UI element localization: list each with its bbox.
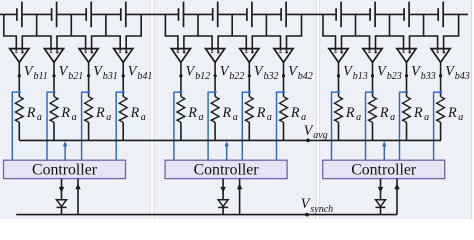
node V_b11 junction dot [18,74,21,77]
svg-text:b41: b41 [137,71,152,82]
diode D2 [218,200,228,208]
op-amp U8 minus input mark [279,51,281,53]
wire: blue sense line from node V_b42 to controller 2 [277,92,284,160]
op-amp U3 plus input mark [90,51,93,54]
label Ra of resistor R3 [95,105,111,123]
node V_b13 junction dot [337,74,340,77]
wire: blue Vavg feedback line with up arrow into controller 3 [382,141,386,160]
label V_b23 [377,63,402,82]
wire: blue sense line from node V_b21 to controller 1 [47,92,54,160]
junction dot on sense line at node V_b32 [248,91,251,94]
wire: tap from bus to op-amp U4 right input [126,14,141,50]
node V_b21 junction dot [52,74,55,77]
node V_b31 junction dot [87,74,90,77]
controller 1 box [4,160,126,178]
label Ra of resistor R4 [130,105,146,123]
wire: resistor R4 bottom to Vavg bus [122,122,124,140]
label Vavg [304,123,328,141]
op-amp U2 minus input mark [50,51,52,53]
svg-text:a: a [106,112,111,123]
op-amp U11 (buffer) [397,49,416,63]
op-amp U1 minus input mark [15,51,17,53]
svg-text:R: R [290,105,300,121]
op-amp U1 plus input mark [21,51,24,54]
svg-text:b32: b32 [264,71,279,82]
label Ra of resistor R7 [256,105,272,123]
op-amp U4 minus input mark [119,51,121,53]
node: cell junction tap between B5 and B6 [197,14,199,36]
op-amp U10 plus input mark [374,51,377,54]
svg-text:a: a [72,112,77,123]
svg-text:a: a [141,112,146,123]
label V_b13 [343,63,368,82]
label Ra of resistor R8 [290,105,306,123]
wire: battery string bus segment y=14.4 [218,13,247,15]
battery cell B6 [213,2,218,28]
svg-text:a: a [37,112,42,123]
resistor R4 value Ra [119,97,127,123]
node Vsynch junction dot [305,213,309,217]
node V_b22 junction dot [214,74,217,77]
group separator between module 1 and module 2 [150,0,154,219]
op-amp U5 minus input mark [177,51,179,53]
wire: tap level to op-amp U5 right input and U6 left input [184,36,212,51]
op-amp U8 plus input mark [285,51,288,54]
svg-text:a: a [356,112,361,123]
battery cell B2 [52,2,57,28]
op-amp U4 plus input mark [125,51,128,54]
op-amp U10 (buffer) [363,49,382,63]
wire: blue sense line from node V_b43 to controller 3 [434,92,441,160]
wire: battery string bus segment y=14.4 [286,13,336,15]
svg-text:b22: b22 [229,71,244,82]
wire: controller 3 output to diode D3 with down arrow [378,179,383,200]
wire: resistor R8 bottom to Vavg bus [283,122,285,140]
wire: blue sense line from node V_b32 to controller 2 [242,92,249,160]
op-amp U5 plus input mark [183,51,186,54]
node Vavg junction dot [306,139,310,143]
battery cell B4 [121,2,126,28]
svg-text:b11: b11 [34,71,48,82]
junction dot on sense line at node V_b33 [405,91,408,94]
op-amp U6 (buffer) [206,49,225,63]
controller 3 box [323,160,445,178]
label Ra of resistor R9 [345,105,361,123]
svg-text:b33: b33 [421,71,436,82]
svg-text:R: R [26,105,36,121]
svg-text:b31: b31 [103,71,118,82]
wire: battery string bus segment y=14.4 [57,13,87,15]
junction dot on sense line at node V_b43 [439,91,442,94]
op-amp U6 plus input mark [217,51,220,54]
label V_b42 [288,63,313,82]
wire: blue sense line from node V_b12 to controller 2 [174,92,181,160]
resistor R12 value Ra [437,97,445,123]
label Ra of resistor R1 [26,105,42,123]
wire: resistor R10 bottom to Vavg bus [372,122,374,140]
right edge separator [472,0,474,219]
resistor R2 value Ra [50,97,58,123]
battery cell B9 [336,2,341,28]
svg-text:a: a [233,112,238,123]
svg-text:a: a [424,112,429,123]
resistor R10 value Ra [369,97,377,123]
op-amp U12 (buffer) [431,49,450,63]
wire: Vsynch bus to controller 2 input with up arrow [237,179,242,215]
resistor R8 value Ra [280,97,288,123]
junction dot on sense line at node V_b11 [18,91,21,94]
label Ra of resistor R10 [379,105,395,123]
wire: op-amp U8 output to node V_b42 and resistor R8 [283,62,285,96]
wire: controller 1 output to diode D1 with down arrow [59,179,64,200]
wire: battery string bus segment y=14.4 [375,13,404,15]
wire: resistor R5 bottom to Vavg bus [180,122,182,140]
wire: op-amp U6 output to node V_b22 and resistor R6 [214,62,216,96]
svg-text:R: R [256,105,266,121]
label Ra of resistor R2 [60,105,76,123]
op-amp U4 (buffer) [114,49,133,63]
wire: resistor R6 bottom to Vavg bus [214,122,216,140]
op-amp U7 minus input mark [245,51,247,53]
wire: tap level to op-amp U10 right input and U11 left input [376,36,404,51]
wire: blue Vavg feedback line with up arrow into controller 1 [63,141,67,160]
svg-text:R: R [95,105,105,121]
svg-text:b12: b12 [195,71,210,82]
op-amp U3 minus input mark [84,51,86,53]
group separator between module 2 and module 3 [316,0,319,219]
junction dot on sense line at node V_b21 [53,91,56,94]
node: cell junction tap between B9 and B10 [355,14,357,36]
wire: battery string bus segment y=14.4 [184,13,213,15]
op-amp U8 (buffer) [274,49,293,63]
svg-text:R: R [379,105,389,121]
op-amp U2 plus input mark [56,51,59,54]
junction dot on sense line at node V_b22 [214,91,217,94]
wire: blue sense line from node V_b33 to controller 3 [400,92,407,160]
wire: battery string bus segment y=14.4 [91,13,121,15]
op-amp U9 plus input mark [340,51,343,54]
wire: op-amp U12 output to node V_b43 and resistor R12 [440,62,442,96]
label V_b41 [128,63,153,82]
op-amp U2 (buffer) [44,49,63,63]
node V_b33 junction dot [405,74,408,77]
svg-text:R: R [447,105,457,121]
wire: battery string bus segment y=14.4 [443,13,468,15]
controller 2 box [165,160,287,178]
label Vsynch [301,196,333,215]
op-amp U5 (buffer) [171,49,190,63]
wire: resistor R2 bottom to Vavg bus [53,122,55,140]
resistor R1 value Ra [15,97,23,123]
svg-text:R: R [130,105,140,121]
wire: tap from bus to op-amp U5 left input [165,14,178,50]
wire: op-amp U7 output to node V_b32 and resistor R7 [248,62,250,96]
wire: resistor R3 bottom to Vavg bus [88,122,90,140]
label V_b11 [24,63,48,82]
wire: battery string bus segment y=14.4 [252,13,281,15]
battery cell B12 [438,2,443,28]
battery cell B1 [17,2,22,28]
wire: op-amp U3 output to node V_b31 and resistor R3 [88,62,90,96]
label V_b32 [254,63,279,82]
wire: controller 2 output to diode D2 with down arrow [220,179,225,200]
svg-text:Controller: Controller [351,162,417,179]
resistor R11 value Ra [403,97,411,123]
wire: op-amp U2 output to node V_b21 and resistor R2 [53,62,55,96]
svg-text:b23: b23 [387,71,402,82]
node: cell junction tap between B7 and B8 [265,14,267,36]
wire: battery string bus segment y=14.4 [126,13,179,15]
node V_b32 junction dot [248,74,251,77]
wire: resistor R9 bottom to Vavg bus [338,122,340,140]
label V_b33 [411,63,436,82]
node: cell junction tap between B6 and B7 [231,14,233,36]
label V_b22 [220,63,245,82]
wire: resistor R11 bottom to Vavg bus [406,122,408,140]
wire: Vsynch bus to controller 1 input with up arrow [75,179,80,215]
wire: tap level to op-amp U3 right input and U4 left input [92,36,121,51]
op-amp U12 minus input mark [436,51,438,53]
resistor R5 value Ra [177,97,185,123]
op-amp U7 plus input mark [251,51,254,54]
wire: blue sense line from node V_b22 to controller 2 [208,92,215,160]
node V_b42 junction dot [282,74,285,77]
node V_b41 junction dot [122,74,125,77]
svg-text:Controller: Controller [194,162,260,179]
op-amp U12 plus input mark [442,51,445,54]
wire: tap level to op-amp U7 right input and U8 left input [252,36,280,51]
wire: tap level to op-amp U2 right input and U3 left input [57,36,86,51]
wire: tap level to op-amp U11 right input and U12 left input [410,36,438,51]
diode D3 [376,200,386,208]
diode D1 [57,200,67,208]
wire: op-amp U1 output to node V_b11 and resistor R1 [18,62,20,96]
wire: diode D1 cathode to Vsynch bus [61,207,63,214]
resistor R7 value Ra [245,97,253,123]
wire: diode D2 cathode to Vsynch bus [222,207,224,214]
junction dot on sense line at node V_b42 [282,91,285,94]
svg-text:b13: b13 [353,71,368,82]
svg-text:b21: b21 [68,71,83,82]
node: cell junction tap between B1 and B2 [36,14,38,36]
node V_b23 junction dot [371,74,374,77]
svg-text:b43: b43 [455,71,470,82]
wire: resistor R1 bottom to Vavg bus [18,122,20,140]
op-amp U11 minus input mark [402,51,404,53]
svg-text:synch: synch [310,204,333,215]
junction dot on sense line at node V_b23 [371,91,374,94]
wire: Vavg bus [19,139,441,141]
resistor R3 value Ra [85,97,93,123]
wire: tap level to op-amp U6 right input and U7 left input [218,36,246,51]
wire: blue sense line from node V_b41 to controller 1 [116,92,123,160]
wire: op-amp U9 output to node V_b13 and resistor R9 [338,62,340,96]
wire: battery string bus segment y=14.4 [409,13,438,15]
svg-text:a: a [199,112,204,123]
wire: resistor R12 bottom to Vavg bus [440,122,442,140]
node: cell junction tap between B11 and B12 [423,14,425,36]
battery cell B5 [179,2,184,28]
label Ra of resistor R12 [447,105,463,123]
op-amp U10 minus input mark [368,51,370,53]
label V_b31 [93,63,118,82]
node: cell junction tap between B3 and B4 [105,14,107,36]
wire: tap from bus to op-amp U8 right input [287,14,302,50]
wire: diode D3 cathode to Vsynch bus [380,207,382,214]
op-amp U7 (buffer) [240,49,259,63]
svg-text:avg: avg [313,130,327,141]
wire: op-amp U4 output to node V_b41 and resistor R4 [122,62,124,96]
svg-text:b42: b42 [298,71,313,82]
svg-text:Controller: Controller [32,162,98,179]
battery cell B3 [86,2,91,28]
wire: tap level to op-amp U1 right input and U2 left input [22,36,51,51]
svg-text:R: R [413,105,423,121]
wire: blue Vavg feedback line with up arrow into controller 2 [225,141,229,160]
svg-text:R: R [222,105,232,121]
op-amp U6 minus input mark [211,51,213,53]
battery cell B10 [370,2,375,28]
wire: blue sense line from node V_b13 to controller 3 [332,92,339,160]
wire: battery string bus segment y=14.4 [341,13,370,15]
svg-text:a: a [267,112,272,123]
svg-text:a: a [390,112,395,123]
wire: resistor R7 bottom to Vavg bus [248,122,250,140]
resistor R9 value Ra [335,97,343,123]
label Ra of resistor R11 [413,105,429,123]
svg-text:R: R [187,105,197,121]
battery cell B11 [404,2,409,28]
label V_b43 [445,63,470,82]
junction dot on sense line at node V_b12 [179,91,182,94]
wire: battery string bus segment y=14.4 [0,13,17,15]
op-amp U1 (buffer) [10,49,29,63]
svg-text:a: a [301,112,306,123]
node: cell junction tap between B2 and B3 [70,14,72,36]
wire: op-amp U10 output to node V_b23 and resistor R10 [372,62,374,96]
wire: tap from bus to op-amp U12 right input [444,14,459,50]
op-amp U9 (buffer) [329,49,348,63]
label Ra of resistor R5 [187,105,203,123]
node V_b43 junction dot [439,74,442,77]
wire: tap from bus to op-amp U9 left input [323,14,336,50]
junction dot on sense line at node V_b13 [337,91,340,94]
op-amp U11 plus input mark [408,51,411,54]
junction dot on sense line at node V_b41 [122,91,125,94]
label V_b21 [59,63,84,82]
wire: tap from bus to op-amp U1 left input [4,14,16,50]
junction dot on sense line at node V_b31 [87,91,90,94]
wire: Vsynch bus to controller 3 input with up arrow [394,179,399,215]
svg-text:R: R [60,105,70,121]
wire: tap level to op-amp U9 right input and U10 left input [342,36,370,51]
label Ra of resistor R6 [222,105,238,123]
svg-text:R: R [345,105,355,121]
battery cell B8 [281,2,286,28]
wire: blue sense line from node V_b23 to controller 3 [366,92,373,160]
wire: blue sense line from node V_b31 to controller 1 [82,92,89,160]
wire: blue sense line from node V_b11 to controller 1 [12,92,19,160]
svg-text:a: a [458,112,463,123]
wire: op-amp U11 output to node V_b33 and resistor R11 [406,62,408,96]
wire: battery string bus segment y=14.4 [22,13,52,15]
op-amp U9 minus input mark [334,51,336,53]
node: cell junction tap between B10 and B11 [389,14,391,36]
battery cell B7 [247,2,252,28]
op-amp U3 (buffer) [79,49,98,63]
label V_b12 [186,63,211,82]
node V_b12 junction dot [179,74,182,77]
wire: Vsynch bus [16,214,397,216]
wire: op-amp U5 output to node V_b12 and resistor R5 [180,62,182,96]
resistor R6 value Ra [211,97,219,123]
